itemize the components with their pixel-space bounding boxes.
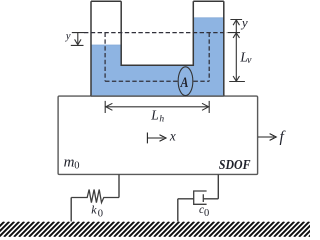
label f bbox=[280, 128, 287, 145]
Lh horizontal length dimension bbox=[105, 101, 209, 113]
right y displacement dimension bbox=[230, 20, 242, 82]
damper c0 piston and rod bbox=[203, 194, 218, 202]
U-tube walls bbox=[91, 1, 224, 96]
svg-text:m: m bbox=[64, 154, 75, 170]
svg-text:y: y bbox=[65, 31, 71, 42]
cross-section ellipse A bbox=[178, 67, 193, 96]
mass box m0 (SDOF) bbox=[58, 96, 258, 174]
label y (left) bbox=[65, 31, 71, 42]
label Lv bbox=[239, 49, 252, 66]
svg-text:h: h bbox=[159, 115, 164, 125]
damper c0 cylinder bbox=[194, 191, 207, 204]
svg-text:v: v bbox=[247, 55, 252, 66]
svg-text:A: A bbox=[180, 75, 189, 91]
ground hatching bbox=[0, 222, 320, 237]
spring k0 left leg wire bbox=[70, 198, 72, 222]
mass box top edge under tube bbox=[91, 95, 224, 97]
damper c0 right leg wire bbox=[217, 174, 219, 198]
label Lh bbox=[150, 107, 164, 124]
svg-text:f: f bbox=[280, 128, 287, 145]
svg-text:0: 0 bbox=[98, 209, 103, 220]
Lv vertical length dimension bbox=[228, 33, 245, 82]
liquid in U-tube bbox=[91, 18, 224, 96]
label m0 bbox=[64, 154, 80, 171]
svg-text:L: L bbox=[150, 107, 159, 122]
label x bbox=[169, 129, 176, 144]
svg-text:k: k bbox=[91, 202, 97, 216]
dashed static liquid level bbox=[84, 32, 227, 34]
spring k0 right leg wire bbox=[118, 174, 120, 197]
dashed right column centerline bbox=[208, 33, 210, 82]
svg-text:0: 0 bbox=[74, 161, 79, 172]
dashed bottom channel centerline bbox=[105, 80, 209, 82]
left y displacement dimension bbox=[71, 33, 85, 46]
damper c0 left rod and leg wire bbox=[178, 199, 194, 222]
spring k0 bbox=[71, 190, 119, 203]
svg-text:x: x bbox=[169, 129, 176, 144]
label SDOF bbox=[219, 158, 251, 173]
label k0 bbox=[91, 202, 103, 219]
label y (right) bbox=[240, 15, 248, 30]
svg-text:SDOF: SDOF bbox=[219, 158, 251, 173]
dashed left column centerline bbox=[104, 33, 106, 82]
label c0 bbox=[199, 204, 209, 219]
svg-text:y: y bbox=[240, 15, 248, 30]
svg-text:0: 0 bbox=[204, 208, 209, 219]
x coordinate arrow bbox=[147, 133, 166, 144]
f force arrow bbox=[258, 134, 276, 141]
